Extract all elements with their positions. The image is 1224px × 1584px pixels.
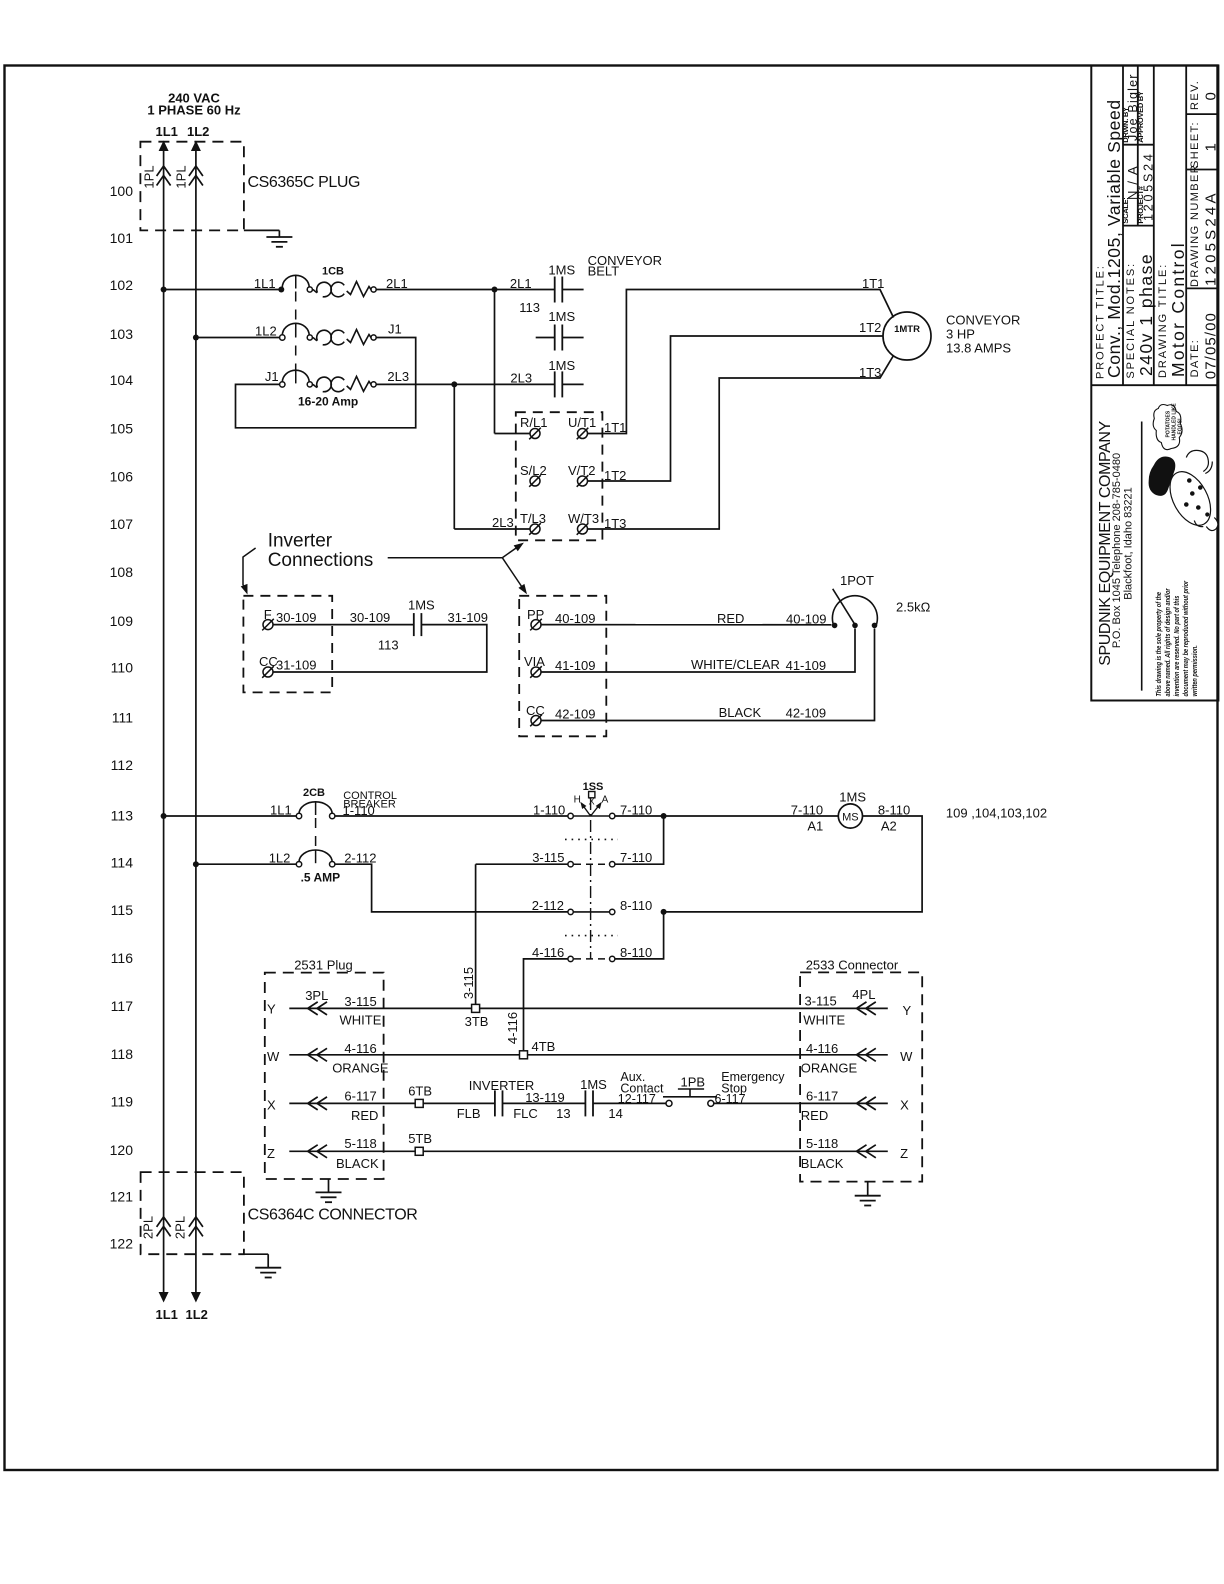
chevrons 3PL line117 <box>305 988 328 1015</box>
svg-text:F: F <box>264 607 272 622</box>
wire line119 X segment1 <box>289 1102 495 1104</box>
chevrons line119 <box>308 1097 327 1110</box>
label RED <box>717 611 744 626</box>
wire line104 1CB to junction 2L3 <box>376 383 555 385</box>
svg-text:U/T1: U/T1 <box>568 415 596 430</box>
svg-text:109: 109 <box>110 613 134 629</box>
label 7-110 A1 <box>791 803 824 834</box>
svg-text:113: 113 <box>519 300 540 315</box>
pin X 2533 <box>900 1098 909 1113</box>
chevrons 4PL line117 <box>852 987 876 1015</box>
1SS contact line114 open <box>532 850 652 867</box>
svg-text:1MS: 1MS <box>548 263 575 278</box>
svg-text:W/T3: W/T3 <box>568 511 599 526</box>
svg-text:3PL: 3PL <box>305 988 328 1003</box>
svg-text:31-109: 31-109 <box>276 658 316 673</box>
svg-text:121: 121 <box>110 1189 134 1205</box>
svg-text:2.5kΩ: 2.5kΩ <box>896 600 931 615</box>
contactor 1MS pole 2 unused <box>536 325 584 351</box>
label 113 crossref at 1MS <box>519 300 540 315</box>
svg-text:1: 1 <box>1202 143 1219 151</box>
svg-text:122: 122 <box>110 1236 134 1252</box>
label Emergency Stop 6-117 <box>715 1070 786 1106</box>
svg-text:1L1: 1L1 <box>270 803 292 818</box>
svg-text:Inverter: Inverter <box>268 531 333 552</box>
label FLC <box>513 1106 538 1121</box>
svg-text:101: 101 <box>110 230 134 246</box>
svg-text:1MS: 1MS <box>408 598 435 613</box>
svg-text:DRAWING NUMBER: DRAWING NUMBER <box>1189 164 1201 287</box>
label 113 crossref <box>378 638 399 653</box>
terminal W/T3 <box>568 511 599 535</box>
terminal VIA <box>524 654 545 678</box>
node junction line104 2L3 <box>451 381 457 387</box>
terminal V/T2 <box>568 463 595 487</box>
terminal CC line111 <box>526 703 545 726</box>
wire line113 2CB to 1SS <box>335 815 568 817</box>
svg-text:CS6365C PLUG: CS6365C PLUG <box>248 174 361 191</box>
plug pin chevrons 2PL on 1L2 <box>189 1217 203 1237</box>
label 5-118 2533 <box>806 1136 838 1151</box>
label WHITE/CLEAR <box>691 657 780 672</box>
motor 1MTR circle <box>883 312 931 360</box>
svg-text:A: A <box>602 795 609 806</box>
breaker 1CB pole 2 line103 <box>280 323 377 345</box>
svg-text:REV.: REV. <box>1189 80 1201 110</box>
svg-text:109 ,104,103,102: 109 ,104,103,102 <box>946 806 1047 821</box>
arrowheads 1L1 1L2 bottom <box>159 1292 201 1303</box>
label 2L3 at T/L3 <box>492 515 514 530</box>
svg-text:CC: CC <box>526 703 545 718</box>
svg-text:VIA: VIA <box>524 654 545 669</box>
terminal CC line110 <box>259 654 278 678</box>
svg-text:118: 118 <box>111 1046 134 1062</box>
svg-text:2L3: 2L3 <box>387 369 409 384</box>
label 109 ,104,103,102 crossref <box>946 806 1047 821</box>
svg-text:105: 105 <box>110 421 134 437</box>
svg-text:BELT: BELT <box>588 264 620 279</box>
svg-text:1T3: 1T3 <box>859 365 881 380</box>
label 2L3 line104 <box>387 369 409 384</box>
svg-text:12-117: 12-117 <box>618 1092 656 1106</box>
label 1MS aux <box>408 598 435 613</box>
breaker 1CB gang dashed link <box>295 292 297 373</box>
label WHITE line117 <box>340 1013 382 1028</box>
label ORANGE line118 <box>332 1060 389 1075</box>
svg-text:Connections: Connections <box>268 550 374 571</box>
svg-text:6-117: 6-117 <box>344 1088 376 1103</box>
svg-text:7-110: 7-110 <box>791 803 823 818</box>
svg-text:J1: J1 <box>388 322 402 337</box>
breaker 2CB pole 2 <box>296 850 335 867</box>
ladder line numbers 100-122 <box>110 183 134 1252</box>
svg-text:1MTR: 1MTR <box>894 324 920 335</box>
node 1L1 top label <box>156 124 178 139</box>
label 1T1 <box>862 276 884 291</box>
svg-text:1L1: 1L1 <box>254 276 276 291</box>
connector 1PL plug CS6365C dashed box <box>140 142 244 231</box>
label 1CB <box>322 266 344 278</box>
svg-text:31-109: 31-109 <box>448 610 488 625</box>
label 1T3 at W/T3 <box>604 516 626 531</box>
label 13-119 <box>525 1090 565 1105</box>
svg-text:X: X <box>900 1098 909 1113</box>
wire FLC to 1MS aux <box>503 1102 586 1104</box>
svg-text:CC: CC <box>259 654 278 669</box>
label 1T2 <box>859 320 881 335</box>
svg-text:.5 AMP: .5 AMP <box>301 870 341 884</box>
wire 2L3 down to T/L3 <box>454 384 529 529</box>
svg-text:30-109: 30-109 <box>350 610 390 625</box>
label 40-109 at PP <box>555 611 595 626</box>
label Aux. Contact 12-117 <box>618 1070 664 1106</box>
svg-text:107: 107 <box>110 516 134 532</box>
svg-text:6TB: 6TB <box>408 1084 432 1099</box>
svg-text:2531 Plug: 2531 Plug <box>294 957 353 972</box>
svg-text:V/T2: V/T2 <box>568 463 595 478</box>
svg-text:R/L1: R/L1 <box>520 415 547 430</box>
svg-text:3-115: 3-115 <box>532 850 564 865</box>
svg-text:4-116: 4-116 <box>344 1041 376 1056</box>
label ORANGE 2533 <box>801 1060 858 1075</box>
label CS6364C CONNECTOR <box>248 1206 418 1223</box>
svg-text:RED: RED <box>717 611 744 626</box>
svg-text:3-115: 3-115 <box>344 994 376 1009</box>
svg-text:1205S24A: 1205S24A <box>1202 190 1219 286</box>
svg-text:A1: A1 <box>807 819 823 834</box>
svg-text:2533 Connector: 2533 Connector <box>806 957 899 972</box>
svg-text:ORANGE: ORANGE <box>332 1060 389 1075</box>
wire 4-116 left corner down <box>524 959 569 1051</box>
pin W 2531 <box>267 1049 280 1064</box>
wire line117 Y to 2533 <box>289 1007 888 1009</box>
svg-text:2L3: 2L3 <box>510 371 532 386</box>
label 1T2 at V/T2 <box>604 468 626 483</box>
svg-text:1MS: 1MS <box>839 790 866 805</box>
pin Y 2533 <box>903 1003 912 1018</box>
wire line114 rail2 to 2CB <box>196 863 296 865</box>
wire 1PB to 2533 <box>714 1102 888 1104</box>
label RED 2533 <box>801 1108 828 1123</box>
svg-text:1L2: 1L2 <box>255 324 277 339</box>
pin Y 2531 <box>267 1002 276 1017</box>
svg-text:1-110: 1-110 <box>533 803 565 818</box>
wire 3-115 left to riser <box>476 863 568 865</box>
label 2L1 at 1MS <box>510 276 532 291</box>
svg-text:0: 0 <box>1202 92 1219 100</box>
node junction rail1 line113 <box>161 813 167 819</box>
potentiometer 1POT <box>832 589 878 628</box>
label 2533 Connector <box>806 957 899 972</box>
svg-text:BLACK: BLACK <box>801 1156 844 1171</box>
plug pin chevrons 2PL on 1L1 <box>157 1217 171 1237</box>
inverter PP-VIA-CC dashed box <box>519 596 606 737</box>
svg-text:3-115: 3-115 <box>805 994 837 1009</box>
svg-text:120: 120 <box>110 1142 134 1158</box>
label 3-115 2533 <box>805 994 837 1009</box>
label BLACK 2533 <box>801 1156 844 1171</box>
breaker 1CB pole 3 line104 <box>280 370 377 392</box>
wire 1MS aux to CC loop <box>273 625 487 672</box>
svg-text:1L1: 1L1 <box>156 1307 178 1322</box>
svg-text:S/L2: S/L2 <box>520 463 547 478</box>
wire VIA to 1POT wiper <box>541 629 855 673</box>
label 1PB <box>681 1075 706 1090</box>
wire 2-112 down to line115 <box>335 864 568 912</box>
svg-text:T/L3: T/L3 <box>520 511 546 526</box>
label 5-118 line120 <box>344 1136 376 1151</box>
wire 1T3 W/T3 to motor <box>588 356 894 530</box>
svg-text:above named. All rights of de: above named. All rights of design and/or <box>1164 588 1172 696</box>
svg-text:1 PHASE 60 Hz: 1 PHASE 60 Hz <box>147 103 241 118</box>
label BLACK line120 <box>336 1156 379 1171</box>
wire line113 rail1 to 2CB <box>164 815 297 817</box>
svg-text:J1: J1 <box>265 369 279 384</box>
svg-text:1L2: 1L2 <box>269 851 291 866</box>
wire 2L1 junction to 1MS contact <box>495 289 555 291</box>
contactor 1MS pole 1 line102 <box>555 277 563 303</box>
wire line120 Z to 2533 <box>289 1150 888 1152</box>
svg-text:1L2: 1L2 <box>186 1307 208 1322</box>
label RED line119 <box>351 1108 378 1123</box>
inverter power terminals dashed box <box>516 412 603 540</box>
ground at CS6365C plug <box>244 230 293 246</box>
svg-text:7-110: 7-110 <box>620 850 652 865</box>
svg-text:1T2: 1T2 <box>859 320 881 335</box>
svg-text:4TB: 4TB <box>532 1039 556 1054</box>
svg-text:WHITE: WHITE <box>340 1013 382 1028</box>
svg-text:written permission.: written permission. <box>1191 645 1199 697</box>
label 1MS pole1 <box>548 263 575 278</box>
label 42-109 right <box>786 706 826 721</box>
coil 1MS MS <box>838 804 862 828</box>
svg-text:MS: MS <box>842 812 859 824</box>
wire PP to 1POT left <box>541 624 832 626</box>
svg-text:108: 108 <box>110 564 134 580</box>
label 1PL left of 1L1 pin <box>142 165 157 188</box>
label 1L1 line113 <box>270 803 292 818</box>
wire CC to 1POT right <box>541 629 875 721</box>
wire stub after 1MS pole3 <box>562 383 583 385</box>
node junction rail2 line114 <box>193 861 199 867</box>
svg-text:SCALE:: SCALE: <box>1121 197 1130 223</box>
svg-text:111: 111 <box>112 710 133 726</box>
svg-text:2-112: 2-112 <box>532 898 564 913</box>
wire 1MS to 1PB <box>593 1102 666 1104</box>
contactor 1MS pole 3 line104 <box>555 371 563 397</box>
wire line102 1CB to junction 2L1 <box>376 289 494 291</box>
svg-text:13: 13 <box>556 1106 570 1121</box>
CS6365C PLUG label <box>248 174 361 191</box>
wire J1 loop line103 to line104 <box>236 338 416 428</box>
wire line113 to MS coil <box>615 815 838 817</box>
wire 1T2 V/T2 to motor <box>588 336 883 481</box>
svg-text:42-109: 42-109 <box>786 706 826 721</box>
label 1L1 bottom <box>156 1307 178 1322</box>
svg-text:4PL: 4PL <box>852 987 875 1002</box>
svg-text:1CB: 1CB <box>322 266 344 278</box>
terminal T/L3 <box>520 511 546 535</box>
label 14 <box>608 1106 622 1121</box>
svg-text:1MS: 1MS <box>580 1077 607 1092</box>
1SS contact line115 closed <box>532 898 653 915</box>
label 2L3 at 1MS <box>510 371 532 386</box>
svg-text:BLACK: BLACK <box>719 705 762 720</box>
label 4-116 line118 <box>344 1041 376 1056</box>
svg-text:1MS: 1MS <box>548 358 575 373</box>
svg-text:RED: RED <box>351 1108 378 1123</box>
svg-text:RED: RED <box>801 1108 828 1123</box>
node junction rail1 line102 <box>161 287 167 293</box>
label 41-109 at VIA <box>555 658 595 673</box>
svg-text:104: 104 <box>110 372 134 388</box>
label 2-112 line114 <box>344 851 376 866</box>
label 1T3 <box>859 365 881 380</box>
terminal S/L2 <box>520 463 547 487</box>
chevrons line119 2533 <box>857 1097 876 1110</box>
label 30-109 mid <box>350 610 390 625</box>
wire rail 1L2 vertical <box>195 146 197 1293</box>
svg-text:2-112: 2-112 <box>344 851 376 866</box>
svg-text:1T1: 1T1 <box>862 276 884 291</box>
svg-text:13.8 AMPS: 13.8 AMPS <box>946 341 1011 356</box>
svg-text:BLACK: BLACK <box>336 1156 379 1171</box>
svg-text:3 HP: 3 HP <box>946 327 975 342</box>
svg-text:Z: Z <box>900 1146 908 1161</box>
breaker 2CB pole 1 <box>296 802 335 819</box>
label Inverter Connections <box>268 531 374 572</box>
svg-text:113: 113 <box>378 638 399 653</box>
ground at CS6364C <box>244 1254 281 1277</box>
svg-text:X: X <box>267 1098 276 1113</box>
svg-text:8-110: 8-110 <box>620 945 652 960</box>
connector CS6364C dashed box <box>141 1172 244 1254</box>
label 4-116 2533 <box>806 1041 838 1056</box>
arrowheads into plug 1L1 1L2 <box>159 141 201 152</box>
leader arrows to terminal boxes <box>388 543 527 595</box>
plug pin chevrons 1PL on 1L1 <box>157 166 171 186</box>
label 8-110 A2 <box>878 803 910 834</box>
svg-text:112: 112 <box>111 757 134 773</box>
svg-text:WHITE/CLEAR: WHITE/CLEAR <box>691 657 780 672</box>
label 2.5k ohm <box>896 600 931 615</box>
svg-text:CS6364C CONNECTOR: CS6364C CONNECTOR <box>248 1206 418 1223</box>
ground at 2531 plug <box>316 1179 342 1202</box>
wire junction to 4-116 contact <box>615 912 664 959</box>
chevrons line118 <box>308 1048 327 1061</box>
svg-text:document may be reproduced wit: document may be reproduced without prior <box>1182 580 1190 696</box>
svg-text:W: W <box>900 1049 913 1064</box>
svg-text:This drawing is the sole prope: This drawing is the sole property of the <box>1155 592 1163 697</box>
label 31-109 at CC <box>276 658 316 673</box>
terminal PP <box>527 607 544 630</box>
wire rail 1L1 vertical <box>163 146 165 1293</box>
breaker 1CB pole 1 line102 <box>278 275 376 297</box>
label CONTROL BREAKER 1-110 <box>343 790 397 818</box>
svg-text:FLB: FLB <box>457 1106 481 1121</box>
svg-text:4-116: 4-116 <box>806 1041 838 1056</box>
svg-text:3TB: 3TB <box>465 1014 489 1029</box>
pushbutton 1PB emergency stop NC <box>663 1089 717 1106</box>
svg-text:4-116: 4-116 <box>532 945 564 960</box>
pin Z 2531 <box>267 1146 275 1161</box>
svg-text:110: 110 <box>111 660 134 676</box>
node junction rail2 line103 <box>193 335 199 341</box>
svg-text:5-118: 5-118 <box>344 1136 376 1151</box>
selector switch 1SS label and head <box>574 781 609 807</box>
label 16-20 Amp <box>298 395 358 409</box>
label 1MS coil <box>839 790 866 805</box>
svg-text:4-116: 4-116 <box>505 1012 520 1044</box>
label FLB <box>457 1106 481 1121</box>
label 1MS pole3 <box>548 358 575 373</box>
svg-text:1PL: 1PL <box>174 165 189 188</box>
chevrons line120 2533 <box>857 1145 876 1158</box>
svg-text:16-20 Amp: 16-20 Amp <box>298 395 358 409</box>
terminal R/L1 <box>520 415 547 439</box>
contact 1MS aux line109 <box>414 613 422 636</box>
label 1L1 line102 <box>254 276 276 291</box>
label .5 AMP <box>301 870 341 884</box>
label 1PL left of 1L2 pin <box>174 165 189 188</box>
label 2531 Plug <box>294 957 353 972</box>
wire 2L1 down to R/L1 <box>495 290 530 434</box>
svg-text:41-109: 41-109 <box>786 658 826 673</box>
pin Z 2533 <box>900 1146 908 1161</box>
connector 2533 dashed box <box>800 972 922 1181</box>
svg-text:DATE:: DATE: <box>1189 339 1201 378</box>
selector 1SS position arrows <box>580 802 602 816</box>
svg-text:1PL: 1PL <box>142 165 157 188</box>
label 2PL left of 1L1 <box>141 1216 156 1239</box>
1SS contact line116 open <box>532 945 652 962</box>
svg-text:Y: Y <box>903 1003 912 1018</box>
svg-text:102: 102 <box>110 277 134 293</box>
svg-text:117: 117 <box>111 998 134 1014</box>
label CONVEYOR BELT <box>588 253 662 279</box>
terminal 3TB <box>465 1004 489 1028</box>
label 1MS pole2 <box>548 309 575 324</box>
svg-text:W: W <box>267 1049 280 1064</box>
wire 1T1 U/T1 to motor <box>588 290 894 434</box>
label 40-109 right <box>786 612 826 627</box>
node junction line113 right <box>661 813 667 819</box>
contact FLB-FLC inverter <box>495 1090 503 1116</box>
svg-text:1POT: 1POT <box>840 573 874 588</box>
contact 1MS aux line119 <box>585 1090 593 1116</box>
label 1L2 line103 <box>255 324 277 339</box>
label 6-117 2533 <box>806 1088 838 1103</box>
wire MS coil return loop to line115 <box>664 816 923 912</box>
riser 3-115 to 3TB <box>475 864 477 1004</box>
chevrons line118 2533 <box>857 1048 876 1061</box>
label 1POT <box>840 573 874 588</box>
terminal 6TB <box>408 1084 432 1108</box>
label 2CB <box>303 787 325 799</box>
svg-text:FLC: FLC <box>513 1106 538 1121</box>
svg-text:CONVEYOR: CONVEYOR <box>946 313 1020 328</box>
svg-text:8-110: 8-110 <box>620 898 652 913</box>
label WHITE 2533 <box>803 1013 845 1028</box>
chevrons line120 <box>308 1145 327 1158</box>
svg-text:invention are reserved. No pa: invention are reserved. No part of this <box>1173 595 1181 696</box>
wire stub after 1MS pole1 <box>562 289 583 291</box>
wire line103 rail2 to 1CB <box>196 337 280 339</box>
svg-text:EGGS!: EGGS! <box>1177 418 1183 434</box>
svg-text:Motor Control: Motor Control <box>1168 241 1188 377</box>
svg-text:14: 14 <box>608 1106 622 1121</box>
svg-text:103: 103 <box>110 326 134 342</box>
